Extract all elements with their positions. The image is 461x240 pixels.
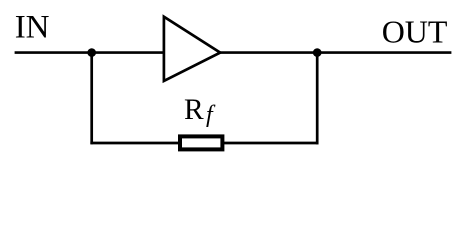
svg-text:OUT: OUT bbox=[382, 14, 448, 50]
op-amp buffer A1 bbox=[164, 17, 220, 81]
resistor Rf bbox=[180, 136, 222, 149]
wire: bottom feedback, left segment bbox=[90, 142, 179, 145]
svg-text:f: f bbox=[206, 102, 216, 128]
label Rf (value label) bbox=[184, 94, 216, 128]
svg-text:IN: IN bbox=[15, 10, 50, 46]
node: output junction bbox=[313, 48, 322, 57]
node: input junction bbox=[87, 48, 96, 57]
wire: bottom feedback, right segment bbox=[224, 142, 319, 145]
svg-text:R: R bbox=[184, 94, 204, 126]
wire: left vertical feedback branch bbox=[90, 53, 93, 145]
wire: right vertical feedback branch bbox=[316, 53, 319, 145]
wire: buffer output to OUT bbox=[220, 51, 451, 54]
wire: IN to buffer input bbox=[15, 51, 165, 54]
